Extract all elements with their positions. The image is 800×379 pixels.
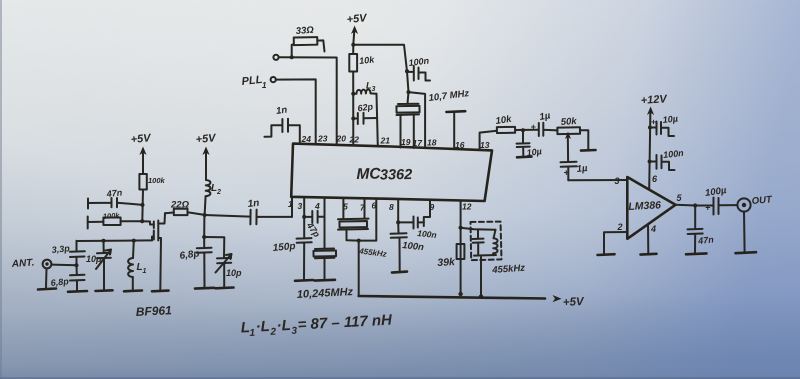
inductor L3 [353,81,378,147]
svg-text:10p: 10p [226,268,242,278]
label 455kHz (filter) [358,246,387,258]
resistor 33ohm [292,25,325,58]
wire pin 4 lead [324,198,326,248]
node pin 8 junction [396,220,400,224]
capacitor 3,3p [51,241,85,265]
svg-text:PLL: PLL [241,74,263,88]
svg-text:1: 1 [262,81,267,90]
svg-text:100n: 100n [402,240,425,253]
svg-text:+12V: +12V [640,93,668,107]
ground (10p input) [96,289,113,292]
capacitor 10u [517,130,543,158]
+12V supply arrow [640,93,668,189]
+5V bus wire [359,296,545,299]
resistor 22ohm [165,200,205,216]
svg-text:2: 2 [269,327,277,338]
op-amp U2 LM386 [627,177,675,239]
ground (pin 2) [598,253,615,256]
svg-text:1: 1 [249,328,256,339]
node crystal top junction [407,90,411,94]
svg-text:BF961: BF961 [135,303,172,319]
node 100n decouple tap [648,160,652,164]
capacitor 1u (wiper, electrolytic) [561,162,589,181]
svg-text:+5V: +5V [563,296,586,309]
output connector J2 [737,198,750,211]
node 6,8p/10p junction [202,235,206,239]
svg-text:·L: ·L [276,317,291,335]
ground (10p mixer) [215,286,233,289]
inductor L2 [205,180,221,215]
capacitor 150p [272,217,313,281]
antenna connector J1 [43,260,52,269]
crystal X2 10,245MHz [313,249,336,281]
svg-text:10k: 10k [495,114,513,127]
svg-text:10k: 10k [359,54,376,66]
ground (6,8p) [68,290,87,293]
svg-text:47n: 47n [105,187,123,199]
+5V supply arrow (first stage) [130,132,153,174]
svg-text:MC: MC [356,166,381,183]
svg-text:24: 24 [301,134,312,144]
svg-text:·L: ·L [255,318,270,336]
svg-text:8: 8 [389,202,394,212]
svg-text:3: 3 [615,176,620,186]
ground (L1) [124,289,142,292]
svg-text:1: 1 [288,199,293,209]
svg-text:23: 23 [317,134,328,144]
svg-text:OUT: OUT [751,194,773,207]
svg-text:3362: 3362 [380,167,413,184]
node L2 junction [203,213,207,217]
quad coil 455kHz discriminator (dashed) [461,222,502,297]
capacitor 100u (output, electrolytic) [695,185,737,214]
wire test point to pin 20 [279,57,337,145]
node 39k bus junction [458,292,462,296]
capacitor 1n (pin1 coupling) [247,198,292,225]
pin 16 stub [446,111,465,149]
node 62p left junction [351,117,355,121]
svg-text:21: 21 [380,136,391,146]
svg-text:3: 3 [372,86,376,93]
svg-text:100n: 100n [417,228,437,240]
transistor Q1 BF961 dual-gate MOSFET [142,213,165,290]
svg-text:1: 1 [143,268,147,275]
PLL1 label [241,74,267,90]
inductor L1 [128,241,146,290]
node input junction [75,263,79,267]
svg-text:+: + [531,122,537,132]
wire pin 2 to ground [604,232,627,254]
wire L2 node down [203,215,205,237]
svg-text:+: + [705,203,711,213]
wire 1u to LM386 pin 3 [568,179,627,181]
node filter/pin6 junction [357,239,361,243]
svg-text:150p: 150p [272,241,296,254]
node +5V top junction [351,43,355,47]
wire pin 8 lead [397,200,399,223]
svg-text:+: + [651,118,656,127]
svg-text:6,8p: 6,8p [50,276,69,288]
terminal (33ohm test point) [273,55,278,60]
node 33ohm left junction [290,55,294,59]
capacitor 100n (pin18 branch) [407,55,430,80]
svg-text:16: 16 [455,140,465,150]
svg-text:1µ: 1µ [576,163,588,175]
wire junction to pin 18 [409,92,426,148]
wire pin 3 lead [303,198,305,217]
node 10p tap [102,239,106,243]
svg-text:+5V: +5V [346,12,369,26]
svg-text:ANT.: ANT. [10,257,34,270]
wire pin 4 to ground [647,224,649,253]
capacitor 100n (pin 8 to gnd) [391,222,425,272]
svg-text:2: 2 [617,222,623,232]
resistor 10k (pin 22 pull) [349,45,375,146]
wire pin 6 lead [359,199,377,240]
svg-text:10µ: 10µ [662,113,678,125]
capacitor 6,8p (mixer tank) [179,237,212,287]
crystal X1 10,7MHz [396,88,470,148]
wire down to +5V bus [358,241,360,296]
wire crystal top junction [407,71,409,92]
+5V supply arrow (L2) [195,132,218,180]
svg-text:+5V: +5V [195,132,218,146]
formula L1 L2 L3 = 87 - 117 nH [240,312,393,340]
svg-text:47n: 47n [697,234,715,246]
ground (50k) [581,149,596,152]
ground (source) [152,289,169,292]
svg-text:3,3p: 3,3p [51,243,70,255]
wire PLL1 to pin 23 [276,79,316,144]
resistor 39k [437,244,464,269]
+5V bus arrow and label [553,295,586,309]
svg-text:100k: 100k [103,211,121,221]
trimmer capacitor 10p (mixer tank) [204,237,242,287]
capacitor 47p [304,211,324,240]
+5V supply arrow (IC) [346,12,369,45]
wire +5V to crystal branch [353,45,407,72]
terminal PLL1 [271,77,276,82]
capacitor 10u (supply, electrolytic) [650,113,678,136]
svg-text:39k: 39k [437,256,456,269]
svg-text:18: 18 [427,138,437,148]
resistor 10k (audio) [495,114,539,133]
potentiometer 50k [557,116,588,161]
node output junction [693,203,697,207]
svg-text:12: 12 [462,202,472,212]
wire connector to input node [52,264,77,267]
svg-text:3: 3 [298,201,303,211]
svg-text:13: 13 [480,140,490,150]
svg-text:50k: 50k [560,116,577,128]
wire pin 12 lead [460,201,462,294]
wire connector shell to ground [743,212,746,252]
capacitor 1u (coupling, electrolytic) [531,110,558,136]
wire pin 5 lead [342,199,344,219]
svg-text:2: 2 [216,189,221,196]
svg-text:4: 4 [650,224,656,234]
ceramic filter 455kHz [338,219,369,241]
capacitor 62p [353,101,377,124]
capacitor 47n (output) [686,206,715,255]
svg-text:19: 19 [401,137,411,147]
node 10u tap [521,128,525,132]
node gate2 junction [140,219,144,223]
node 100n tap [405,69,409,73]
ground (output) [736,252,757,253]
node pin 12 junction [459,226,463,230]
wire node to 1n [205,215,250,217]
node gate2 bias junction [141,203,145,207]
wire connector shell to ground [45,269,48,288]
ground (6,8p mixer) [195,286,214,289]
trimmer capacitor 10p (input) [86,241,111,290]
IC U1 label MC3362 [356,166,412,184]
svg-text:+5V: +5V [130,132,153,146]
node pin 3 junction [302,215,306,219]
resistor 100k (drain pull, vertical) [139,174,165,221]
svg-text:33Ω: 33Ω [295,25,314,37]
svg-text:4: 4 [314,201,320,211]
capacitor 6,8p (input) [50,265,84,290]
ground (antenna) [38,289,56,290]
capacitor 47n (gate2) [88,187,143,208]
svg-text:100k: 100k [148,176,166,185]
svg-text:1n: 1n [247,198,260,210]
node 10u decouple tap [648,126,652,130]
resistor 100k (gate2 bias, horizontal) [88,211,143,229]
wire pin 7 lead [364,199,366,218]
capacitor 1n (pin 24) [265,105,300,144]
svg-text:3: 3 [291,326,298,337]
svg-text:1n: 1n [275,105,288,117]
svg-text:LM386: LM386 [628,199,661,213]
node L3 left junction [351,92,355,96]
wire pin 13 to 10k [480,131,497,150]
node discriminator bus junction [479,294,483,298]
node L1 tap [132,239,136,243]
wire pin1 lead [291,197,293,217]
wire pin 5 output [676,204,696,207]
capacitor 100n (supply) [650,148,685,170]
ground (pin 4) [641,253,657,256]
wire input node line [77,239,153,242]
capacitor 100n (pins 8-9) [398,201,437,241]
IC U1 MC3362 body [291,144,492,201]
